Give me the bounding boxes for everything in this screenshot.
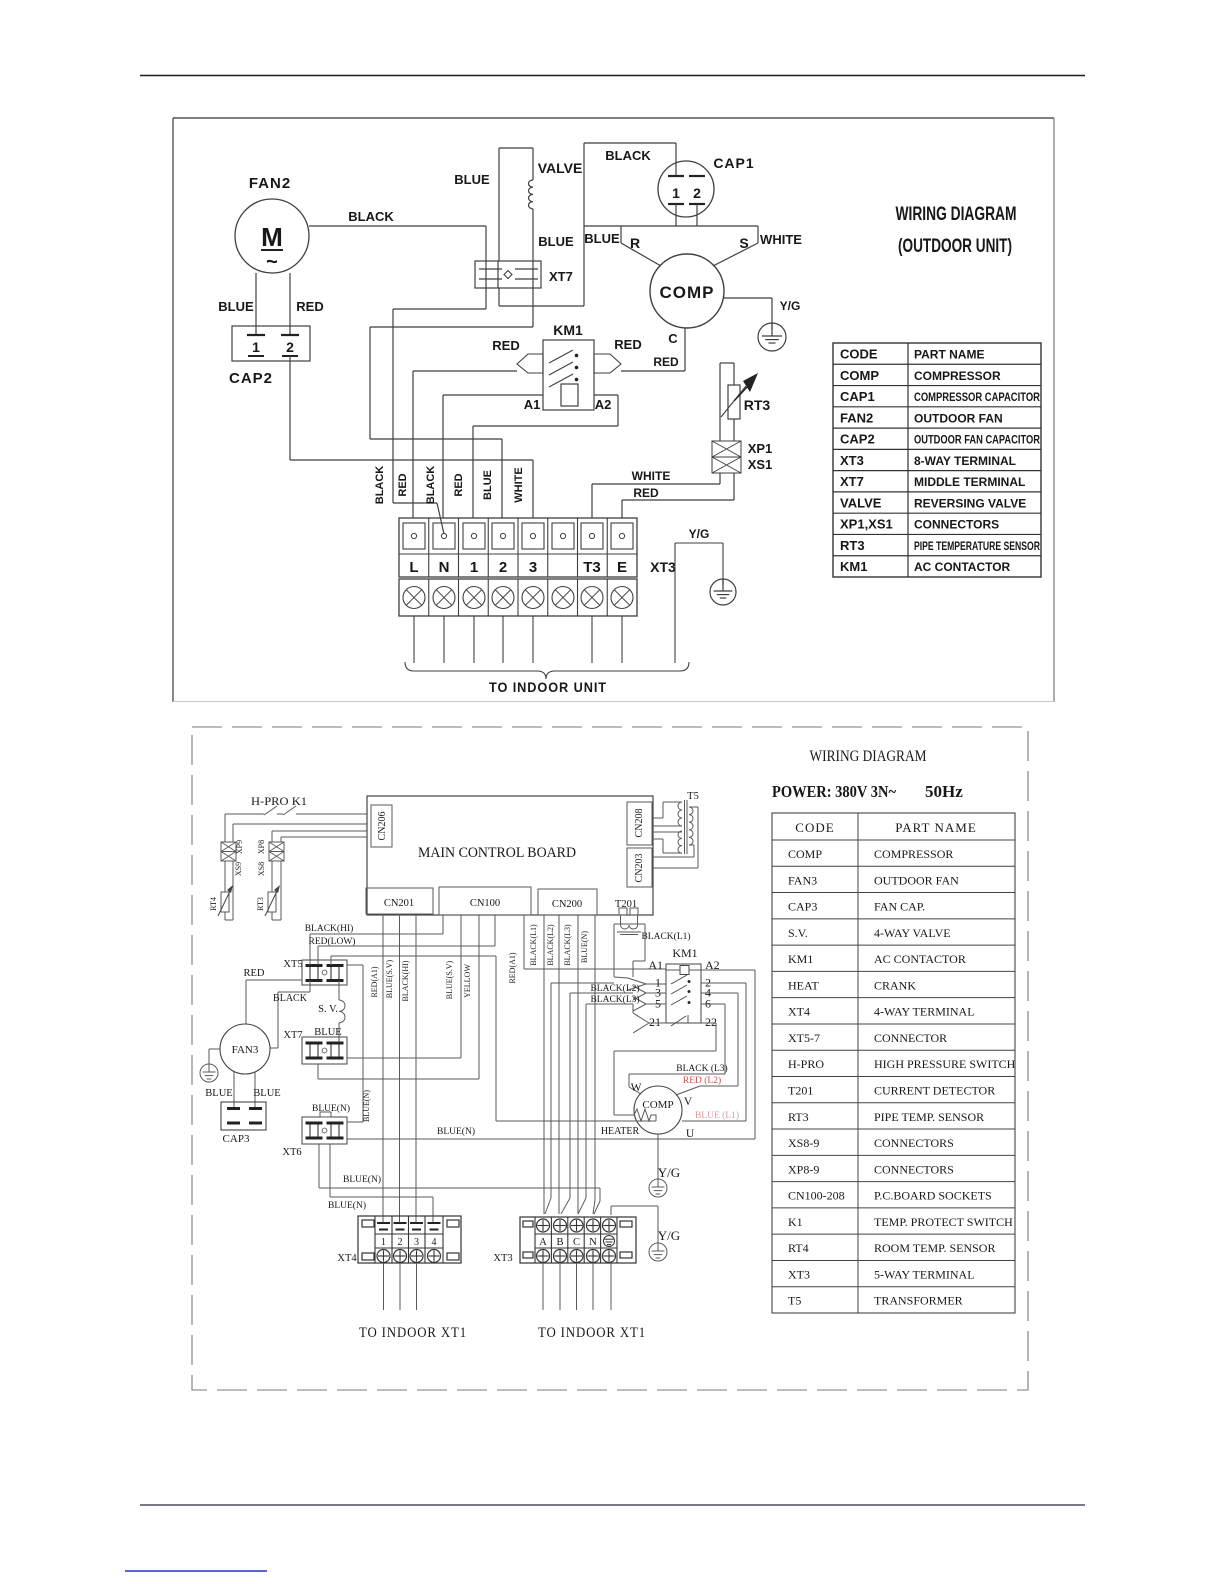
svg-text:22: 22 bbox=[705, 1015, 717, 1029]
svg-text:KM1: KM1 bbox=[840, 559, 867, 574]
svg-text:BLACK(L1): BLACK(L1) bbox=[529, 924, 538, 966]
svg-text:RED (L2): RED (L2) bbox=[683, 1075, 721, 1086]
svg-text:BLUE(N): BLUE(N) bbox=[362, 1090, 371, 1122]
XT3 clamp screw at 474 bbox=[463, 587, 485, 609]
wire BLACK(L3) KM1 pin6 to COMP W bbox=[701, 1003, 725, 1005]
svg-text:BLUE(N): BLUE(N) bbox=[312, 1103, 350, 1114]
svg-text:XP9: XP9 bbox=[235, 840, 244, 854]
svg-text:RED: RED bbox=[244, 968, 265, 979]
svg-text:AC CONTACTOR: AC CONTACTOR bbox=[914, 560, 1011, 574]
svg-text:BLACK(HI): BLACK(HI) bbox=[401, 960, 410, 1001]
svg-text:FAN2: FAN2 bbox=[840, 410, 873, 425]
svg-text:PIPE TEMP. SENSOR: PIPE TEMP. SENSOR bbox=[874, 1110, 984, 1124]
svg-text:BLACK(L2): BLACK(L2) bbox=[546, 924, 555, 966]
svg-text:BLUE(N): BLUE(N) bbox=[437, 1126, 475, 1137]
svg-text:RT3: RT3 bbox=[788, 1110, 809, 1124]
svg-text:RED(A1): RED(A1) bbox=[370, 966, 379, 997]
svg-text:RED: RED bbox=[653, 355, 679, 369]
ground symbol (comp d2) bbox=[649, 1179, 667, 1197]
svg-text:XT3: XT3 bbox=[788, 1267, 810, 1281]
svg-text:CN201: CN201 bbox=[384, 898, 414, 909]
fan motor FAN3 bbox=[220, 1024, 270, 1074]
svg-text:T5: T5 bbox=[788, 1294, 801, 1308]
svg-text:TEMP. PROTECT SWITCH: TEMP. PROTECT SWITCH bbox=[874, 1215, 1013, 1229]
svg-text:BLUE (L1): BLUE (L1) bbox=[695, 1110, 739, 1121]
svg-text:CAP1: CAP1 bbox=[840, 389, 875, 404]
svg-text:BLACK (L3): BLACK (L3) bbox=[676, 1063, 727, 1074]
XT3 screw at 533 bbox=[522, 523, 544, 549]
svg-text:L: L bbox=[409, 559, 418, 576]
svg-text:XP8: XP8 bbox=[257, 840, 266, 854]
svg-text:XS9: XS9 bbox=[234, 862, 243, 876]
T201 to KM1 pin1 link bbox=[614, 923, 645, 925]
svg-text:COMPRESSOR: COMPRESSOR bbox=[874, 847, 953, 861]
KM1 contact arm 1 bbox=[549, 350, 573, 363]
svg-text:M: M bbox=[261, 222, 283, 252]
XT3 clamp screw at 444 bbox=[433, 587, 455, 609]
XT3 clamp screw at 592 bbox=[581, 587, 603, 609]
svg-text:4: 4 bbox=[432, 1237, 437, 1248]
svg-text:VALVE: VALVE bbox=[840, 495, 882, 510]
svg-text:N: N bbox=[589, 1237, 597, 1248]
svg-text:C: C bbox=[573, 1237, 580, 1248]
svg-text:FAN3: FAN3 bbox=[232, 1044, 259, 1056]
svg-text:XT7: XT7 bbox=[283, 1030, 302, 1041]
XT3 clamp screw at 414 bbox=[403, 587, 425, 609]
capacitor CAP2 bbox=[232, 326, 310, 361]
svg-text:S.V.: S.V. bbox=[788, 926, 808, 940]
svg-text:T5: T5 bbox=[687, 791, 699, 802]
svg-text:RT4: RT4 bbox=[209, 897, 218, 911]
chevron into KM1 pin5 bbox=[633, 997, 646, 1004]
svg-text:BLUE: BLUE bbox=[538, 234, 574, 249]
svg-text:CAP2: CAP2 bbox=[229, 370, 273, 387]
svg-text:CURRENT DETECTOR: CURRENT DETECTOR bbox=[874, 1084, 995, 1098]
socket CN201 bbox=[366, 888, 433, 914]
wire Y/G earth to indoor bbox=[674, 543, 676, 663]
wire RED KM1 to terminal L bbox=[413, 370, 517, 372]
wire BLUE(N) XT6 to XT4-4 bbox=[329, 1144, 331, 1197]
svg-text:MIDDLE TERMINAL: MIDDLE TERMINAL bbox=[914, 475, 1025, 489]
wire BLUE(S.V) XT7 to CN100 bbox=[347, 1057, 461, 1059]
svg-text:XT7: XT7 bbox=[840, 474, 864, 489]
XT4 terminal 2 bbox=[394, 1222, 407, 1224]
wire BLACK(HI) XT5 to CN100 bbox=[309, 934, 311, 965]
svg-text:TRANSFORMER: TRANSFORMER bbox=[874, 1294, 963, 1308]
svg-text:XT5-7: XT5-7 bbox=[788, 1031, 820, 1045]
svg-text:RED(LOW): RED(LOW) bbox=[309, 936, 356, 947]
wire XP9 to board bbox=[233, 823, 367, 825]
svg-text:HEATER: HEATER bbox=[601, 1126, 640, 1137]
4-way valve coil S.V. bbox=[338, 981, 340, 1001]
XT4 terminal 1 bbox=[377, 1222, 390, 1224]
svg-text:A: A bbox=[539, 1237, 547, 1248]
svg-text:PIPE TEMPERATURE SENSOR: PIPE TEMPERATURE SENSOR bbox=[914, 539, 1040, 553]
svg-text:N: N bbox=[439, 559, 450, 576]
svg-text:RT3: RT3 bbox=[256, 897, 265, 911]
svg-text:1: 1 bbox=[672, 185, 680, 201]
XT3 screw at 503 bbox=[492, 523, 514, 549]
room temp sensor RT4 bbox=[224, 861, 226, 892]
svg-text:H-PRO: H-PRO bbox=[788, 1057, 824, 1071]
svg-text:XT3: XT3 bbox=[840, 453, 864, 468]
XT3 clamp screw at 533 bbox=[522, 587, 544, 609]
svg-text:CN206: CN206 bbox=[377, 812, 388, 841]
XT3 screw at 563 bbox=[552, 523, 574, 549]
XT3 clamp screw at 503 bbox=[492, 587, 514, 609]
svg-text:XP8-9: XP8-9 bbox=[788, 1162, 819, 1176]
svg-text:WHITE: WHITE bbox=[632, 469, 671, 483]
svg-text:2: 2 bbox=[499, 559, 507, 576]
svg-text:TO INDOOR XT1: TO INDOOR XT1 bbox=[538, 1325, 646, 1341]
svg-text:XT3: XT3 bbox=[650, 559, 676, 575]
svg-text:21: 21 bbox=[649, 1015, 661, 1029]
wire RED(LOW) XT5 to CN100 bbox=[317, 946, 319, 965]
svg-text:CN100-208: CN100-208 bbox=[788, 1189, 845, 1203]
XT3 screw at 414 bbox=[403, 523, 425, 549]
parts table diagram 1 bbox=[833, 343, 1041, 577]
svg-text:CODE: CODE bbox=[840, 347, 878, 362]
svg-text:OUTDOOR FAN CAPACITOR: OUTDOOR FAN CAPACITOR bbox=[914, 433, 1040, 447]
svg-text:COMP: COMP bbox=[642, 1099, 673, 1111]
svg-text:BLACK(L1): BLACK(L1) bbox=[641, 931, 690, 942]
svg-text:VALVE: VALVE bbox=[538, 160, 583, 176]
svg-text:WHITE: WHITE bbox=[760, 232, 802, 247]
svg-text:RED: RED bbox=[492, 338, 519, 353]
8-way terminal XT3 bbox=[399, 518, 637, 577]
svg-text:OUTDOOR FAN: OUTDOOR FAN bbox=[874, 873, 959, 887]
XT4 terminal 3 bbox=[410, 1222, 423, 1224]
svg-text:BLUE: BLUE bbox=[482, 470, 494, 500]
svg-text:BLUE: BLUE bbox=[218, 299, 254, 314]
svg-text:RED: RED bbox=[296, 299, 323, 314]
connector XP9/XS9 bbox=[221, 842, 236, 852]
svg-text:Y/G: Y/G bbox=[658, 1165, 680, 1180]
svg-text:B: B bbox=[556, 1237, 563, 1248]
XT3 screw at 592 bbox=[581, 523, 603, 549]
top horizontal rule bbox=[140, 75, 1085, 77]
fan capacitor CAP3 bbox=[221, 1102, 266, 1130]
svg-text:COMP: COMP bbox=[840, 368, 879, 383]
svg-text:Y/G: Y/G bbox=[780, 299, 801, 313]
svg-text:A1: A1 bbox=[524, 397, 541, 412]
wire RED(L2) KM1 pin4 to COMP V bbox=[701, 992, 738, 994]
svg-text:CAP2: CAP2 bbox=[840, 432, 875, 447]
wires CN208 to T5 bbox=[652, 817, 663, 819]
svg-text:8-WAY TERMINAL: 8-WAY TERMINAL bbox=[914, 454, 1016, 468]
wire KM1 pin22 to heater bbox=[701, 1022, 716, 1024]
svg-text:W: W bbox=[631, 1082, 642, 1094]
svg-text:PART NAME: PART NAME bbox=[914, 348, 984, 362]
svg-text:CN203: CN203 bbox=[634, 854, 645, 883]
wire BLACK fan3 to XT5 bbox=[309, 981, 311, 993]
svg-text:CAP1: CAP1 bbox=[713, 155, 754, 171]
XT3 screw at 444 bbox=[433, 523, 455, 549]
svg-text:E: E bbox=[617, 559, 627, 576]
wires CN200 to XT3 terminal bbox=[543, 915, 545, 1214]
svg-text:CN208: CN208 bbox=[634, 809, 645, 838]
svg-text:PART NAME: PART NAME bbox=[895, 820, 977, 835]
svg-text:~: ~ bbox=[266, 251, 278, 273]
svg-text:XP1: XP1 bbox=[748, 441, 773, 456]
svg-text:CRANK: CRANK bbox=[874, 978, 916, 992]
svg-text:WIRING DIAGRAM: WIRING DIAGRAM bbox=[810, 748, 927, 765]
wire BLACK to CAP1 bbox=[584, 142, 676, 144]
socket CN203 bbox=[627, 848, 652, 887]
svg-text:T3: T3 bbox=[583, 559, 601, 576]
svg-text:CODE: CODE bbox=[795, 820, 834, 835]
svg-text:P.C.BOARD SOCKETS: P.C.BOARD SOCKETS bbox=[874, 1189, 992, 1203]
svg-text:KM1: KM1 bbox=[553, 322, 583, 338]
svg-text:H-PRO K1: H-PRO K1 bbox=[251, 796, 307, 808]
BLUE(N) tag on XT6 bbox=[320, 1112, 331, 1117]
svg-text:CONNECTOR: CONNECTOR bbox=[874, 1031, 947, 1045]
wire RED fan2 to CAP2-2 bbox=[289, 273, 291, 334]
socket CN206 bbox=[371, 805, 392, 847]
XT3 d2 terminal 5 bbox=[603, 1219, 616, 1232]
branch wires KM1 pins to XT3 bbox=[551, 982, 614, 984]
svg-text:RED(A1): RED(A1) bbox=[508, 952, 517, 983]
svg-text:BLACK: BLACK bbox=[605, 148, 651, 163]
svg-text:V: V bbox=[684, 1096, 693, 1108]
svg-text:BLACK: BLACK bbox=[348, 209, 394, 224]
svg-text:KM1: KM1 bbox=[672, 946, 697, 960]
svg-text:XT4: XT4 bbox=[788, 1005, 810, 1019]
svg-text:BLUE(S.V): BLUE(S.V) bbox=[445, 960, 454, 999]
main control board bbox=[367, 796, 653, 915]
XT3 d2 terminal 4 bbox=[587, 1219, 600, 1232]
XT3 d2 terminal 1 bbox=[537, 1219, 550, 1232]
svg-text:TO INDOOR XT1: TO INDOOR XT1 bbox=[359, 1325, 467, 1341]
wire BLACK fan2 to XT7 bbox=[309, 225, 486, 227]
svg-text:C: C bbox=[668, 331, 678, 346]
brace to indoor unit bbox=[405, 662, 689, 679]
wires XT4 to indoor bbox=[383, 1263, 385, 1310]
ground symbol (XT3 d2) bbox=[649, 1243, 667, 1261]
svg-text:CONNECTORS: CONNECTORS bbox=[914, 518, 999, 532]
svg-text:BLACK: BLACK bbox=[374, 466, 386, 505]
svg-text:2: 2 bbox=[286, 339, 294, 355]
svg-text:BLUE(N): BLUE(N) bbox=[580, 931, 589, 963]
svg-text:BLUE(N): BLUE(N) bbox=[343, 1174, 381, 1185]
svg-text:1: 1 bbox=[252, 339, 260, 355]
svg-text:WHITE: WHITE bbox=[513, 467, 525, 502]
svg-text:BLACK: BLACK bbox=[273, 993, 308, 1004]
svg-text:RT3: RT3 bbox=[840, 538, 865, 553]
wire heater control XT5 to heater bbox=[330, 956, 332, 965]
XT3 lower screws row bbox=[399, 579, 637, 616]
wire RED(A1) CN200 to KM1 A1 bbox=[523, 915, 525, 969]
bottom horizontal rule bbox=[140, 1504, 1085, 1506]
XT3 clamp screw at 622 bbox=[611, 587, 633, 609]
svg-text:(OUTDOOR UNIT): (OUTDOOR UNIT) bbox=[898, 236, 1012, 257]
svg-text:U: U bbox=[686, 1128, 695, 1140]
svg-text:S. V.: S. V. bbox=[318, 1004, 338, 1015]
svg-text:2: 2 bbox=[398, 1237, 403, 1248]
wire fan3 to ground bbox=[209, 1048, 220, 1050]
KM1 right lug bbox=[594, 354, 621, 373]
XT3 d2 terminal 3 bbox=[570, 1219, 583, 1232]
wire RED from C to KM1 bbox=[684, 328, 686, 371]
svg-text:HEAT: HEAT bbox=[788, 978, 819, 992]
svg-text:MAIN CONTROL BOARD: MAIN CONTROL BOARD bbox=[418, 845, 576, 861]
svg-text:CONNECTORS: CONNECTORS bbox=[874, 1162, 954, 1176]
svg-text:FAN CAP.: FAN CAP. bbox=[874, 900, 925, 914]
svg-text:BLACK(L3): BLACK(L3) bbox=[590, 994, 639, 1005]
svg-text:2: 2 bbox=[693, 185, 701, 201]
wires to indoor unit bbox=[413, 616, 415, 663]
wire RED XS1 to terminal E bbox=[733, 473, 735, 500]
ground symbol (comp) bbox=[758, 323, 786, 351]
svg-text:XT7: XT7 bbox=[549, 269, 573, 284]
svg-text:CAP3: CAP3 bbox=[223, 1133, 250, 1145]
svg-text:RED: RED bbox=[633, 486, 659, 500]
svg-text:XT4: XT4 bbox=[337, 1253, 357, 1264]
svg-text:4-WAY TERMINAL: 4-WAY TERMINAL bbox=[874, 1005, 975, 1019]
KM1 contact arm 3 bbox=[549, 374, 573, 387]
wire YELLOW XT7 to CN100 bbox=[317, 1064, 319, 1079]
wire BLUE(N) XT6 to KM1 A2 bbox=[347, 1138, 755, 1140]
svg-text:HIGH PRESSURE SWITCH: HIGH PRESSURE SWITCH bbox=[874, 1057, 1016, 1071]
svg-text:BLUE(S.V): BLUE(S.V) bbox=[385, 959, 394, 998]
compressor COMP with R S C terminals bbox=[621, 225, 758, 227]
wire Y/G comp to ground bbox=[723, 297, 772, 299]
svg-text:R: R bbox=[630, 235, 640, 251]
chevron into KM1 pin21 bbox=[632, 1004, 634, 1013]
svg-text:S: S bbox=[739, 235, 748, 251]
svg-text:COMP: COMP bbox=[788, 847, 822, 861]
wire BLUE(N) XT5 to XT6 bbox=[347, 964, 363, 966]
wire BLUE(N) XT6 to XT3 N bbox=[318, 1144, 320, 1188]
svg-text:RT3: RT3 bbox=[744, 397, 771, 413]
svg-text:FAN2: FAN2 bbox=[249, 175, 291, 192]
svg-text:RED: RED bbox=[614, 337, 641, 352]
svg-text:BLACK: BLACK bbox=[425, 466, 437, 505]
svg-text:YELLOW: YELLOW bbox=[463, 964, 472, 998]
KM1 coil bbox=[561, 384, 578, 406]
svg-text:5-WAY TERMINAL: 5-WAY TERMINAL bbox=[874, 1267, 975, 1281]
svg-text:XS1: XS1 bbox=[748, 457, 773, 472]
wire XT3 earth to ground Y/G bbox=[610, 1206, 612, 1215]
diagram 1 frame bbox=[173, 117, 1054, 119]
svg-text:COMPRESSOR CAPACITOR: COMPRESSOR CAPACITOR bbox=[914, 390, 1040, 404]
connectors XP1 XS1 bbox=[712, 441, 741, 457]
svg-text:Y/G: Y/G bbox=[658, 1228, 680, 1243]
connector XP8/XS8 bbox=[271, 831, 273, 842]
svg-text:BLUE: BLUE bbox=[454, 172, 490, 187]
svg-text:XT5: XT5 bbox=[283, 959, 302, 970]
svg-text:AC CONTACTOR: AC CONTACTOR bbox=[874, 952, 966, 966]
svg-text:TO INDOOR UNIT: TO INDOOR UNIT bbox=[489, 679, 607, 695]
wire A2 to terminal 1 bbox=[594, 394, 618, 396]
compressor COMP (diagram 2) bbox=[634, 1086, 682, 1134]
XT3 screw at 474 bbox=[463, 523, 485, 549]
wire comp to ground Y/G bbox=[657, 1134, 659, 1165]
chevron into KM1 pin3 bbox=[633, 986, 646, 993]
svg-text:BLUE(N): BLUE(N) bbox=[328, 1200, 366, 1211]
earth mark in XT3 bbox=[604, 1236, 615, 1247]
svg-text:A2: A2 bbox=[595, 397, 612, 412]
svg-text:50Hz: 50Hz bbox=[925, 782, 963, 801]
ground symbol (XT3) bbox=[710, 579, 736, 605]
svg-text:3: 3 bbox=[414, 1237, 419, 1248]
svg-text:REVERSING VALVE: REVERSING VALVE bbox=[914, 496, 1026, 510]
svg-text:KM1: KM1 bbox=[788, 952, 813, 966]
svg-text:BLACK(L3): BLACK(L3) bbox=[563, 924, 572, 966]
svg-text:K1: K1 bbox=[788, 1215, 803, 1229]
wire A1 to terminal N bbox=[443, 394, 543, 396]
middle terminal XT7 (diagram 1) bbox=[475, 261, 541, 288]
wire KM1 A2 to BLUE(N) bbox=[701, 969, 755, 971]
svg-text:A1: A1 bbox=[648, 958, 663, 972]
svg-text:BLACK(L2): BLACK(L2) bbox=[590, 983, 639, 994]
KM1 contact arm 2 bbox=[549, 362, 573, 375]
svg-text:COMPRESSOR: COMPRESSOR bbox=[914, 369, 1001, 383]
svg-text:BLUE: BLUE bbox=[314, 1027, 341, 1038]
ground symbol (fan3) bbox=[200, 1064, 218, 1082]
svg-text:XS8: XS8 bbox=[257, 862, 266, 876]
svg-text:CONNECTORS: CONNECTORS bbox=[874, 1136, 954, 1150]
svg-text:CAP3: CAP3 bbox=[788, 900, 817, 914]
XT4 terminal 4 bbox=[428, 1222, 441, 1224]
wire BLUE valve to terminal 2 bbox=[370, 326, 533, 328]
wires through XT7 bbox=[485, 261, 487, 288]
svg-text:COMP: COMP bbox=[660, 283, 715, 302]
svg-text:1: 1 bbox=[470, 559, 478, 576]
svg-text:RED: RED bbox=[453, 473, 465, 496]
wire BLUE fan2 to CAP2-1 bbox=[255, 273, 257, 334]
wires XT3 to indoor bbox=[542, 1263, 544, 1310]
svg-text:BLUE: BLUE bbox=[584, 231, 620, 246]
XT3 d2 terminal 2 bbox=[554, 1219, 567, 1232]
svg-text:XT6: XT6 bbox=[282, 1147, 301, 1158]
svg-text:XS8-9: XS8-9 bbox=[788, 1136, 819, 1150]
svg-text:XT3: XT3 bbox=[493, 1253, 512, 1264]
svg-text:WIRING DIAGRAM: WIRING DIAGRAM bbox=[896, 204, 1017, 225]
wire WHITE XS1 to terminal T3 bbox=[719, 473, 721, 484]
svg-text:3: 3 bbox=[529, 559, 537, 576]
svg-text:BLUE: BLUE bbox=[205, 1088, 232, 1099]
wires CN203 to T5 secondary bbox=[689, 806, 698, 808]
svg-text:T201: T201 bbox=[788, 1084, 813, 1098]
pipe temp sensor RT3 bbox=[271, 861, 273, 892]
wire RED fan3 to XT5 bbox=[246, 979, 302, 981]
svg-text:FAN3: FAN3 bbox=[788, 873, 817, 887]
XT3 screw at 622 bbox=[611, 523, 633, 549]
svg-text:RED: RED bbox=[397, 473, 409, 496]
pipe temperature sensor RT3 bbox=[720, 362, 734, 364]
svg-text:POWER: 380V 3N~: POWER: 380V 3N~ bbox=[772, 782, 896, 801]
socket CN208 bbox=[627, 802, 652, 845]
parts table diagram 2 bbox=[772, 813, 1015, 1313]
wire CAP2-2 to terminal 3 (WHITE) bbox=[289, 356, 291, 460]
footnote blue underline bbox=[125, 1570, 267, 1572]
svg-text:BLUE: BLUE bbox=[253, 1088, 280, 1099]
svg-text:XP1,XS1: XP1,XS1 bbox=[840, 517, 893, 532]
svg-text:CN200: CN200 bbox=[552, 899, 582, 910]
wire BLUE valve to COMP R bbox=[499, 305, 584, 307]
svg-text:OUTDOOR FAN: OUTDOOR FAN bbox=[914, 411, 1003, 425]
socket CN200 bbox=[538, 889, 597, 915]
wire BLUE(L1) KM1 pin2 to COMP U bbox=[701, 982, 746, 984]
wires BLUE fan3 to CAP3 bbox=[233, 1072, 235, 1108]
svg-text:BLACK(HI): BLACK(HI) bbox=[305, 923, 354, 934]
KM1 left lug bbox=[517, 354, 543, 373]
diagram 2 dashed frame bbox=[192, 727, 1028, 1390]
svg-text:Y/G: Y/G bbox=[689, 527, 710, 541]
wires CN201 to XT4 bbox=[382, 914, 384, 1222]
XT3 clamp screw at 563 bbox=[552, 587, 574, 609]
